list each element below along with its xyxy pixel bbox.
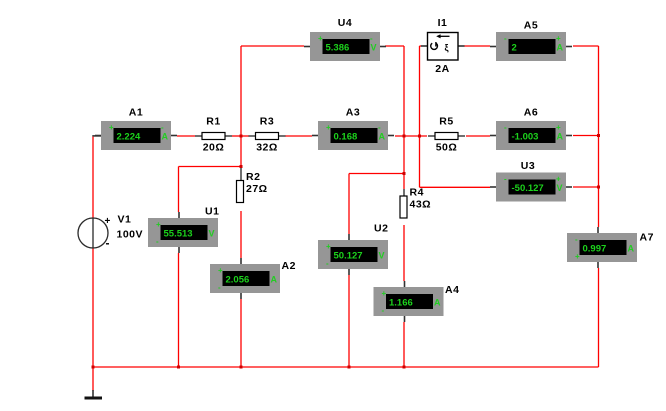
svg-text:V1: V1 [118,214,132,226]
junction R1/R3/node-B [240,135,243,138]
svg-text:U3: U3 [521,160,535,172]
svg-text:+: + [382,289,387,298]
svg-text:ξ: ξ [445,43,449,53]
wire right rail vertical x598 [598,46,600,227]
svg-text:-: - [156,237,159,246]
ammeter A5 [490,20,572,62]
junction A4 bottom on bottom rail [403,366,406,369]
junction U3 right on right rail [597,186,600,189]
svg-text:+: + [326,242,331,251]
svg-text:+: + [218,266,223,275]
wire bottom rail [93,366,599,368]
svg-text:-: - [504,123,507,132]
svg-text:A1: A1 [129,107,143,119]
svg-text:V: V [379,251,385,261]
wire A4 bottom to rail [403,322,405,367]
wire R2 top stub [240,167,242,181]
wire ground drop [92,367,94,391]
wire R1-junction [232,135,241,137]
junction x419 on A3-R5 wire [418,135,421,138]
ammeter A1 [95,107,177,151]
wire node B top to U4 left [241,45,304,47]
svg-text:-: - [575,235,578,244]
wire A1-R1 [177,135,195,137]
ammeter A3 [312,107,394,151]
ammeter A6 [490,107,572,151]
wire U2 top horizontal to x404 [349,173,404,175]
svg-text:50Ω: 50Ω [436,142,458,154]
svg-text:-: - [218,283,221,292]
svg-text:R2: R2 [246,171,260,183]
svg-text:+: + [109,123,114,132]
voltage source V1 100V [78,214,143,251]
wire A7 bottom to rail [598,268,600,367]
svg-text:-: - [382,306,385,315]
svg-text:R5: R5 [439,116,453,128]
junction U2 top on x404 [403,172,406,175]
svg-text:0.997: 0.997 [583,244,607,255]
wire A2 bottom to rail [240,299,242,367]
wire R4 bottom to A4 [403,225,405,281]
svg-text:-50.127: -50.127 [512,183,544,194]
svg-text:A: A [434,298,441,308]
wire U1 bottom to rail [178,253,180,367]
svg-text:U2: U2 [374,223,388,235]
wire U2 bottom to rail [348,275,350,367]
wire A6 right to right rail [573,135,599,137]
svg-text:55.513: 55.513 [164,229,193,240]
svg-text:A3: A3 [346,107,360,119]
junction x404 on A3-R5 wire [403,135,406,138]
svg-text:2A: 2A [435,63,449,75]
svg-text:27Ω: 27Ω [246,183,268,195]
svg-text:A7: A7 [640,232,654,244]
svg-text:A6: A6 [524,107,538,119]
svg-text:+: + [156,220,161,229]
svg-text:A: A [379,132,386,142]
wire node B vertical x241 [240,46,242,167]
voltmeter U1 [148,206,219,254]
voltmeter U4 [304,17,386,61]
resistor R2 27Ω [237,171,268,203]
wire A3-R5 (through junctions) [395,135,427,137]
svg-text:20Ω: 20Ω [203,142,225,154]
svg-text:+: + [326,123,331,132]
junction ground on bottom rail [92,366,95,369]
svg-text:A4: A4 [445,284,459,296]
ammeter A4 [374,281,460,322]
svg-text:-: - [504,34,507,43]
voltmeter U3 [490,160,572,202]
wire R5-A6 [466,135,490,137]
svg-text:A: A [557,43,564,53]
wire left rail vertical (V1 branch upper) [92,137,94,219]
svg-text:5.386: 5.386 [326,43,350,54]
wire U3 right to right rail [573,186,599,188]
svg-text:2: 2 [512,43,517,54]
wire I1 left corner [420,45,422,47]
svg-text:R3: R3 [260,116,274,128]
wire U1 top vertical [178,167,180,213]
svg-text:V: V [371,43,377,53]
svg-text:R1: R1 [206,116,220,128]
svg-text:+: + [556,175,561,184]
svg-text:A: A [628,244,635,254]
svg-text:0.168: 0.168 [334,132,358,143]
svg-text:A: A [557,132,564,142]
wire I1 right to A5 left [464,45,490,47]
svg-text:-: - [504,175,507,184]
svg-text:A2: A2 [282,260,296,272]
svg-text:2.056: 2.056 [226,275,250,286]
wire R3-A3 [285,135,312,137]
svg-text:U4: U4 [338,17,352,29]
svg-text:-1.003: -1.003 [512,132,539,143]
wire U1 top horizontal [179,166,242,168]
svg-text:43Ω: 43Ω [410,199,432,211]
svg-text:-: - [161,123,164,132]
junction A2 bottom on bottom rail [240,366,243,369]
svg-text:+: + [575,252,580,261]
svg-text:A5: A5 [524,20,538,32]
current source I1 2A [421,17,465,75]
junction U1 bottom on bottom rail [177,366,180,369]
wire x419 to U3 left [420,186,491,188]
wire x404 vertical U4 right down to R4 [403,46,405,189]
svg-text:A: A [271,275,278,285]
svg-text:1.166: 1.166 [389,298,413,309]
ammeter A2 [210,258,296,299]
wire junction-R3 [241,135,249,137]
wire A5 right corner [573,45,599,47]
svg-text:2.224: 2.224 [117,132,141,143]
svg-text:V: V [209,229,215,239]
resistor R5 50Ω [428,116,465,154]
svg-text:+: + [556,123,561,132]
svg-text:100V: 100V [117,229,144,241]
wire U2 top vertical [348,174,350,235]
wire R4 top stub [403,189,405,197]
svg-text:-: - [370,34,373,43]
wire A1 left stub to corner [92,135,101,137]
svg-text:U1: U1 [205,206,219,218]
wire x419 vertical I1 left down [419,46,421,187]
wire left rail vertical (V1 branch lower) [92,248,94,368]
resistor R4 43Ω [400,187,431,219]
junction A6 right on right rail [597,134,600,137]
svg-text:+: + [105,216,111,227]
svg-text:+: + [556,34,561,43]
svg-text:R4: R4 [410,187,424,199]
svg-text:I1: I1 [438,17,448,29]
junction U2 bottom on bottom rail [348,366,351,369]
svg-text:V: V [557,183,563,193]
junction R2/U1 node [240,165,243,168]
svg-text:+: + [318,34,323,43]
svg-text:A: A [162,132,169,142]
svg-text:50.127: 50.127 [334,251,363,262]
voltmeter U2 [318,223,388,276]
svg-text:-: - [378,123,381,132]
resistor R1 20Ω [195,116,232,154]
svg-text:32Ω: 32Ω [256,142,278,154]
svg-text:-: - [326,259,329,268]
ammeter A7 [567,227,654,268]
wire U4 right corner [385,45,404,47]
ground [85,390,103,400]
wire R2 bottom to A2 top [240,211,242,258]
svg-text:-: - [106,236,110,250]
resistor R3 32Ω [249,116,286,154]
